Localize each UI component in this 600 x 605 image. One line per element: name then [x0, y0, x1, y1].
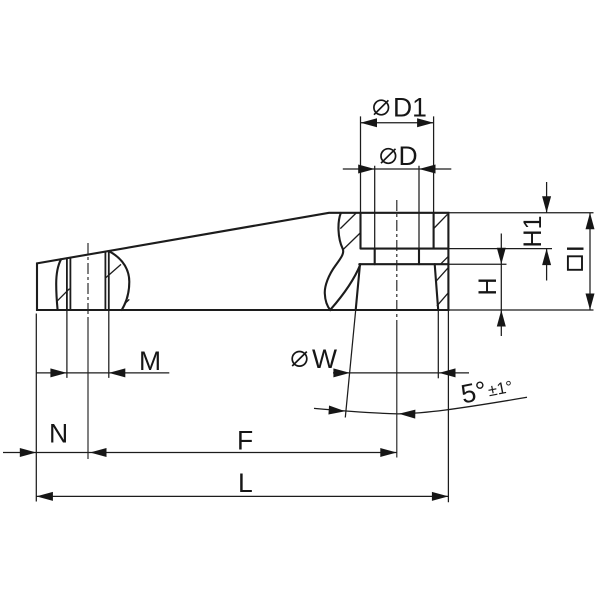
svg-text:L: L [238, 468, 253, 498]
svg-text:D: D [399, 141, 418, 171]
svg-text:N: N [49, 419, 68, 449]
svg-text:F: F [237, 425, 253, 455]
svg-text:5°: 5° [458, 375, 489, 409]
svg-text:D1: D1 [393, 93, 427, 123]
svg-text:W: W [312, 344, 337, 374]
svg-text:M: M [139, 346, 161, 376]
svg-text:H1: H1 [519, 216, 547, 248]
svg-text:±1°: ±1° [486, 378, 514, 400]
svg-text:H: H [474, 277, 502, 295]
